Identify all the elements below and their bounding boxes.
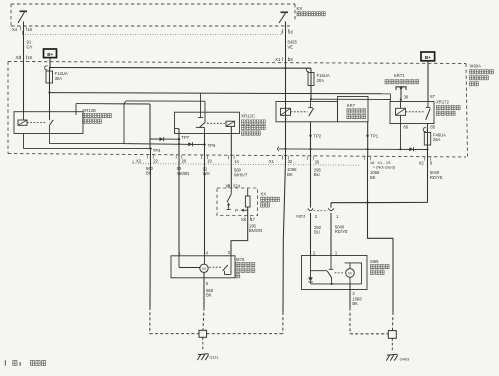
- switch S1 wiper switch left (in KX): [20, 10, 28, 12]
- svg-text:X1: X1: [275, 57, 281, 62]
- svg-text:TP7: TP7: [181, 135, 189, 140]
- fuse F16UA 20A: [306, 68, 309, 72]
- wire 560 WH/VT KR12C coil down to KX park switch: [230, 126, 232, 188]
- svg-text:KR71: KR71: [394, 73, 405, 78]
- wire 560 BK M75 ground out: [203, 273, 205, 308]
- wire XR172 coil out to bus: [400, 115, 402, 149]
- motor M65 internal loop: [345, 263, 362, 284]
- wire TP1 down to bus: [367, 122, 369, 156]
- wire 5040 RD/YE XB51 to M65 pin1: [330, 213, 332, 256]
- svg-text:KR7: KR7: [347, 103, 356, 108]
- svg-text:IX60A: IX60A: [470, 63, 482, 68]
- wire 560 BK left down to G111: [149, 149, 152, 307]
- svg-text:85: 85: [430, 125, 435, 130]
- svg-text:P: P: [235, 208, 238, 213]
- wire bus with diode right section: [277, 147, 278, 152]
- relay KR7 link dashed: [291, 111, 308, 113]
- wire drop to KR12C contact: [200, 93, 202, 117]
- svg-text:X2: X2: [419, 160, 425, 165]
- relay KR12B fixed contact feed: [75, 104, 77, 115]
- relay KR12C link dashed: [207, 122, 225, 124]
- svg-text:M75: M75: [236, 257, 245, 262]
- svg-text:14: 14: [234, 159, 239, 164]
- wire 295 BU row pin26 to XB51: [310, 161, 312, 208]
- wire B+ to XR172 pin 87: [427, 61, 429, 102]
- svg-text:KX: KX: [297, 6, 303, 11]
- wire 1068 BK M65 ground out: [349, 284, 351, 308]
- svg-text:KX: KX: [261, 192, 267, 197]
- svg-text:BK: BK: [287, 172, 293, 177]
- wire 5425 VE from S2 pin 10 down: [285, 22, 287, 68]
- relay KR7 coil on 5425 wire: [285, 68, 287, 161]
- relay XR172 coil: [400, 102, 402, 109]
- ground G111 dashed collector: [150, 333, 199, 335]
- fuse F12UA 30A: [45, 66, 48, 70]
- svg-text:WH: WH: [203, 171, 210, 176]
- test point TP1: [366, 135, 368, 137]
- svg-text:X1: X1: [269, 159, 275, 164]
- connector dotted row: [133, 164, 360, 166]
- svg-text:10: 10: [288, 29, 293, 34]
- resistor R1 in KX park module: [247, 188, 249, 196]
- connector ticks row: [147, 155, 149, 159]
- svg-text:GY: GY: [27, 44, 33, 49]
- svg-text:3: 3: [19, 361, 22, 367]
- svg-text:B+: B+: [47, 52, 53, 57]
- svg-text:WH/VT: WH/VT: [234, 172, 248, 177]
- motor M75 link dashed: [209, 266, 221, 268]
- svg-text:G111: G111: [210, 354, 219, 359]
- svg-text:20: 20: [182, 159, 187, 164]
- wire TP4 to TP7 diode branch: [150, 138, 179, 140]
- wire drop into XR172 corner: [389, 94, 391, 102]
- relay KR12B contact feed from fuse: [49, 93, 51, 121]
- svg-text:B+: B+: [425, 55, 431, 60]
- svg-text:M: M: [348, 272, 351, 276]
- svg-text:22: 22: [153, 158, 158, 163]
- svg-text:X2: X2: [136, 158, 142, 163]
- wire 91 GY from S1 pin X4-18 down to KR12B coil: [23, 22, 25, 112]
- svg-text:TP1: TP1: [370, 134, 378, 139]
- motor M65 rear wiper motor box: [302, 256, 368, 290]
- test point TP4: [149, 147, 151, 149]
- svg-text:VE: VE: [288, 44, 294, 49]
- svg-text:M: M: [202, 267, 205, 271]
- ground G111 symbol: [197, 354, 208, 360]
- svg-text:X4: X4: [241, 217, 247, 222]
- wire 5040 RD/YE from X2-8 to XB51: [331, 201, 428, 203]
- svg-text:17: 17: [250, 217, 255, 222]
- svg-text:XB51: XB51: [296, 213, 307, 218]
- park position arrow symbol: [228, 205, 230, 210]
- svg-text:TP4: TP4: [153, 148, 161, 153]
- motor M65 internal switch: [330, 256, 332, 270]
- svg-text:BK: BK: [206, 293, 212, 298]
- svg-text:BU: BU: [314, 230, 320, 235]
- svg-text:RD/YE: RD/YE: [335, 229, 348, 234]
- motor M65 bottom bus: [311, 283, 362, 285]
- wire 96 YE/BN KR12C/TP7 down to M75 pin1: [178, 129, 180, 256]
- svg-text:X4: X4: [12, 27, 18, 32]
- diode D1 on TP4-TP7 branch: [160, 137, 164, 141]
- wire 92 WH KR12C common down to M75 pin4: [204, 134, 206, 256]
- motor M75 armature circle: [200, 264, 208, 272]
- svg-text:18: 18: [27, 55, 32, 60]
- wire 1068 BK pin32 down to G111: [283, 161, 286, 312]
- connector dotted line inside KX: [23, 34, 283, 36]
- ground G403 symbol: [386, 354, 397, 360]
- ground G111 junction square: [199, 330, 207, 337]
- relay KR12B link dashed: [27, 122, 46, 124]
- relay XR172 fixed contact: [427, 102, 429, 108]
- svg-text:TP2: TP2: [313, 134, 321, 139]
- module KX park switch dashed box: [217, 188, 258, 216]
- svg-text:26: 26: [315, 159, 320, 164]
- svg-text:30A: 30A: [55, 76, 63, 81]
- svg-text:G403: G403: [400, 356, 410, 361]
- relay KR7 rear wiper relay box: [276, 102, 338, 122]
- svg-text:19: 19: [207, 159, 212, 164]
- wire node down to low speed bus: [123, 104, 125, 144]
- battery B+ symbol left: [44, 49, 57, 58]
- test point TP2: [309, 135, 311, 137]
- relay KR12B windshield wiper relay box: [14, 112, 83, 134]
- wire XR172 85 to fuse F46UA: [427, 124, 429, 133]
- svg-text:25A: 25A: [433, 137, 441, 142]
- svg-text:32: 32: [288, 159, 293, 164]
- wire KR7 common down through TP2 to pin 26: [310, 122, 312, 161]
- wire KR12B coil out to TP4: [23, 134, 25, 149]
- wire 1068 BK TP1 branch down: [367, 155, 369, 202]
- svg-text:XR172: XR172: [436, 100, 449, 105]
- relay KR7 fixed contact: [310, 99, 312, 107]
- wire 1068 BK down to G403: [368, 203, 394, 313]
- svg-text:18: 18: [27, 27, 32, 32]
- relay KR12C fixed contact: [198, 117, 203, 119]
- test point TP7: [178, 138, 180, 140]
- label box outline around KR12B label: [76, 103, 150, 105]
- svg-text:30: 30: [404, 95, 409, 100]
- motor M75 windshield wiper motor box: [171, 256, 235, 278]
- fuse F46UA 25A: [423, 128, 426, 132]
- motor M75 park contact lever: [230, 256, 232, 275]
- relay KR12C bottom-left stub to TP7 wire: [175, 128, 180, 130]
- relay KR12C coil: [226, 121, 235, 126]
- motor M65 armature circle: [346, 269, 355, 278]
- svg-text:BK: BK: [352, 301, 358, 306]
- wire 292 BU XB51 to M65 pin2: [310, 213, 312, 256]
- svg-text:= (Not Used): = (Not Used): [373, 165, 396, 170]
- relay KR12B contact lever: [49, 120, 53, 126]
- relay XR172 link dashed: [406, 111, 424, 113]
- svg-text:86: 86: [403, 125, 408, 130]
- test point TP6: [203, 143, 205, 145]
- figure caption 图3 电路图: [5, 360, 6, 365]
- motor M75 internal wiring: [178, 256, 180, 268]
- relay XR172 contact lever: [426, 108, 431, 119]
- relay KR12C pivot bar: [196, 126, 205, 128]
- switch S2 washer switch right (in KX): [281, 11, 289, 13]
- relay KR12C wiper speed/time relay box: [175, 112, 240, 133]
- module KX body control module dashed outline top: [11, 3, 295, 5]
- motor M65 link dashed: [335, 272, 344, 274]
- wire battery feed bus y=67: [50, 67, 311, 70]
- relay KR7 contact lever: [309, 108, 314, 116]
- ground G403 junction square: [388, 331, 396, 339]
- fuse box IX60A dashed outline: [8, 62, 466, 64]
- svg-text:20A: 20A: [317, 78, 325, 83]
- relay XR172 rear washer/wiper relay box: [390, 102, 434, 124]
- svg-text:TP6: TP6: [208, 143, 216, 148]
- diode D2 on bus: [188, 142, 192, 146]
- svg-text:87: 87: [430, 94, 435, 99]
- park switch lever in KX: [230, 188, 232, 194]
- diode D3 on right bus: [409, 147, 413, 151]
- svg-text:BK: BK: [370, 175, 376, 180]
- svg-text:BN/GN: BN/GN: [249, 228, 262, 233]
- relay KR12B coil: [23, 112, 25, 120]
- wire node to KR12C contact feed: [124, 101, 126, 104]
- svg-text:18: 18: [288, 57, 293, 62]
- svg-text:KR12C: KR12C: [241, 113, 255, 118]
- wire KR12B common to low-speed bus: [49, 125, 51, 143]
- svg-text:BU: BU: [314, 172, 320, 177]
- wire low speed bus to TP6: [124, 144, 205, 145]
- relay KR7 label annex box: [338, 97, 369, 122]
- svg-text:M65: M65: [370, 259, 379, 264]
- wire F16UA output to XR172 drop: [311, 98, 390, 100]
- motor M65 internal feed and flyback diode: [310, 256, 312, 278]
- svg-text:24: 24: [235, 184, 240, 189]
- wire F12UA output long feed: [50, 93, 391, 94]
- relay KR12C contact lever: [200, 122, 206, 127]
- svg-text:RD/YE: RD/YE: [430, 175, 443, 180]
- svg-text:KR12B: KR12B: [83, 108, 96, 113]
- svg-text:YE/BN: YE/BN: [177, 171, 190, 176]
- battery B+ symbol right: [421, 52, 435, 61]
